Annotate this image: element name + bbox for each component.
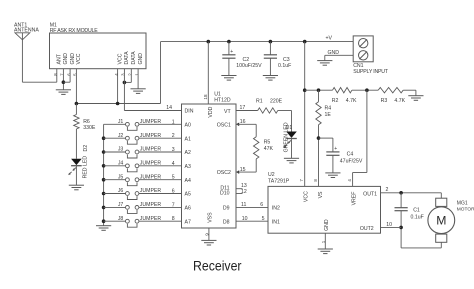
svg-text:J6: J6 [118,188,124,194]
svg-text:OUT1: OUT1 [363,191,377,197]
svg-text:U1: U1 [214,91,221,97]
svg-text:RF ASK RX MODULE: RF ASK RX MODULE [50,28,99,34]
svg-text:1: 1 [172,119,175,125]
svg-text:+: + [230,49,233,55]
svg-text:IN1: IN1 [272,219,280,225]
svg-text:10: 10 [242,216,248,222]
svg-text:OSC2: OSC2 [217,170,231,176]
svg-text:A3: A3 [185,164,191,170]
svg-text:R2: R2 [332,98,339,104]
svg-text:A0: A0 [185,123,191,129]
svg-text:U2: U2 [268,172,275,178]
svg-text:+V: +V [326,35,333,41]
svg-text:2: 2 [386,187,389,193]
svg-text:R1: R1 [256,98,263,104]
svg-text:C1: C1 [413,208,420,214]
svg-text:100uF/25V: 100uF/25V [236,63,262,69]
svg-text:D10: D10 [220,191,230,197]
svg-text:A1: A1 [185,136,191,142]
svg-text:VT: VT [224,109,231,115]
svg-text:HT12D: HT12D [214,97,231,103]
svg-text:Receiver: Receiver [193,259,242,275]
svg-text:DATA: DATA [124,51,130,65]
svg-text:D9: D9 [223,206,230,212]
svg-text:JUMPER: JUMPER [140,216,162,222]
svg-text:J3: J3 [118,147,124,153]
svg-text:MG1: MG1 [457,201,468,207]
svg-text:4.7K: 4.7K [394,98,405,104]
svg-text:A6: A6 [185,206,191,212]
svg-text:GREEN LED: GREEN LED [283,122,289,152]
svg-text:15: 15 [240,167,246,173]
svg-text:J2: J2 [118,133,124,139]
svg-text:VSS: VSS [208,212,214,223]
svg-text:2: 2 [172,133,175,139]
svg-text:JUMPER: JUMPER [140,133,162,139]
svg-text:IN2: IN2 [272,206,280,212]
svg-text:J5: J5 [118,174,124,180]
svg-text:8: 8 [172,216,175,222]
svg-text:6: 6 [260,202,263,208]
svg-text:11: 11 [241,202,246,208]
svg-text:C4: C4 [347,152,354,158]
svg-text:12: 12 [241,189,247,195]
svg-text:9: 9 [204,233,209,236]
svg-text:330E: 330E [83,125,96,131]
svg-text:D2: D2 [83,145,89,152]
svg-text:+: + [334,146,337,152]
svg-text:J8: J8 [118,216,124,222]
svg-text:10: 10 [386,222,392,228]
svg-text:6: 6 [172,189,175,195]
svg-text:GND: GND [70,53,76,65]
svg-text:VCC: VCC [117,53,123,64]
svg-text:D8: D8 [223,219,230,225]
svg-text:A7: A7 [185,219,191,225]
svg-text:R5: R5 [264,139,271,145]
svg-text:J7: J7 [118,202,124,208]
svg-text:GND: GND [328,50,340,56]
svg-text:14: 14 [166,105,172,111]
svg-text:GND: GND [138,53,144,65]
svg-text:A5: A5 [185,192,191,198]
svg-text:TA7291P: TA7291P [268,179,290,185]
svg-text:47K: 47K [264,146,274,152]
svg-text:VDD: VDD [208,106,214,117]
svg-text:JUMPER: JUMPER [140,202,162,208]
svg-text:R3: R3 [381,98,388,104]
svg-text:GND: GND [324,219,330,231]
svg-text:VREF: VREF [351,192,357,206]
svg-text:DIN: DIN [185,109,194,115]
svg-text:ANT: ANT [57,53,63,64]
svg-text:JUMPER: JUMPER [140,174,162,180]
svg-text:J4: J4 [118,160,124,166]
svg-text:A2: A2 [185,150,191,156]
svg-text:M: M [436,213,446,227]
svg-text:3: 3 [172,147,175,153]
svg-text:SUPPLY INPUT: SUPPLY INPUT [353,69,389,75]
svg-text:R4: R4 [325,105,332,111]
svg-text:16: 16 [240,119,246,125]
svg-text:JUMPER: JUMPER [140,119,162,125]
svg-text:5: 5 [172,175,175,181]
svg-text:4: 4 [172,161,175,167]
svg-text:DATA: DATA [131,51,137,65]
svg-text:J1: J1 [118,119,124,125]
svg-text:17: 17 [240,105,246,111]
svg-text:GND: GND [63,53,69,65]
svg-text:JUMPER: JUMPER [140,147,162,153]
svg-text:220E: 220E [270,98,283,104]
svg-text:18: 18 [203,94,208,100]
svg-text:JUMPER: JUMPER [140,160,162,166]
svg-text:0.1uF: 0.1uF [278,63,291,69]
svg-text:5: 5 [262,216,265,222]
svg-text:JUMPER: JUMPER [140,188,162,194]
svg-text:7: 7 [172,202,175,208]
svg-text:MOTOR: MOTOR [457,207,474,213]
svg-text:OUT2: OUT2 [360,226,374,232]
svg-text:0.1uF: 0.1uF [411,215,424,221]
svg-text:RED LED: RED LED [82,156,88,179]
svg-text:VCC: VCC [304,191,310,202]
svg-text:1E: 1E [325,112,332,118]
svg-text:47uF/25V: 47uF/25V [340,159,363,165]
svg-text:A4: A4 [185,178,191,184]
svg-text:VCC: VCC [76,53,82,64]
svg-text:4.7K: 4.7K [346,98,357,104]
svg-text:OSC1: OSC1 [217,122,231,128]
svg-text:CN1: CN1 [353,63,363,69]
svg-text:VS: VS [318,191,324,198]
